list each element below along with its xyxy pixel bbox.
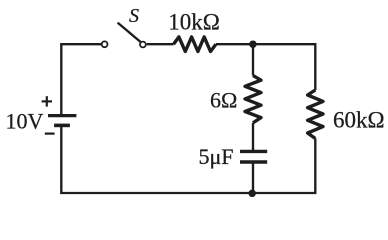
junction node: top of middle branch	[249, 40, 257, 48]
svg-text:S: S	[129, 5, 139, 27]
label: battery - sign	[45, 133, 55, 135]
switch S throw terminal circle	[140, 42, 146, 48]
capacitor 5uF top plate	[240, 150, 267, 153]
svg-text:5μF: 5μF	[199, 144, 234, 169]
label: battery + sign	[42, 96, 52, 106]
resistor 10k ohm zigzag	[174, 37, 216, 52]
wire: 6ohm bottom lead down to capacitor top plate	[252, 123, 254, 152]
svg-text:10V: 10V	[6, 109, 44, 134]
capacitor 5uF bottom plate	[240, 160, 267, 163]
switch S pole terminal circle	[102, 41, 108, 47]
resistor 60k ohm zigzag	[308, 90, 323, 139]
wire: capacitor bottom plate down to bottom node	[252, 162, 254, 194]
wire: 10k resistor right lead across top, down right side to 60k top lead	[216, 44, 315, 90]
svg-text:6Ω: 6Ω	[210, 88, 237, 113]
wire: 60k bottom lead to bottom wire	[314, 139, 316, 195]
wire: switch throw to 10k resistor left lead	[147, 43, 174, 45]
svg-text:60kΩ: 60kΩ	[333, 108, 385, 133]
wire: top-left from switch pole down left side to battery + plate	[61, 44, 101, 115]
wire: middle branch, top node down to 6ohm top lead	[252, 44, 254, 75]
wire: battery - plate down, bottom wire across to right corner	[61, 125, 315, 193]
switch S lever arm	[118, 23, 141, 42]
battery V1 positive plate (long)	[48, 114, 76, 117]
junction node: bottom of middle branch	[248, 190, 256, 198]
battery V1 negative plate (short)	[54, 124, 70, 128]
svg-text:10kΩ: 10kΩ	[168, 10, 220, 35]
resistor 6 ohm zigzag	[245, 76, 261, 123]
